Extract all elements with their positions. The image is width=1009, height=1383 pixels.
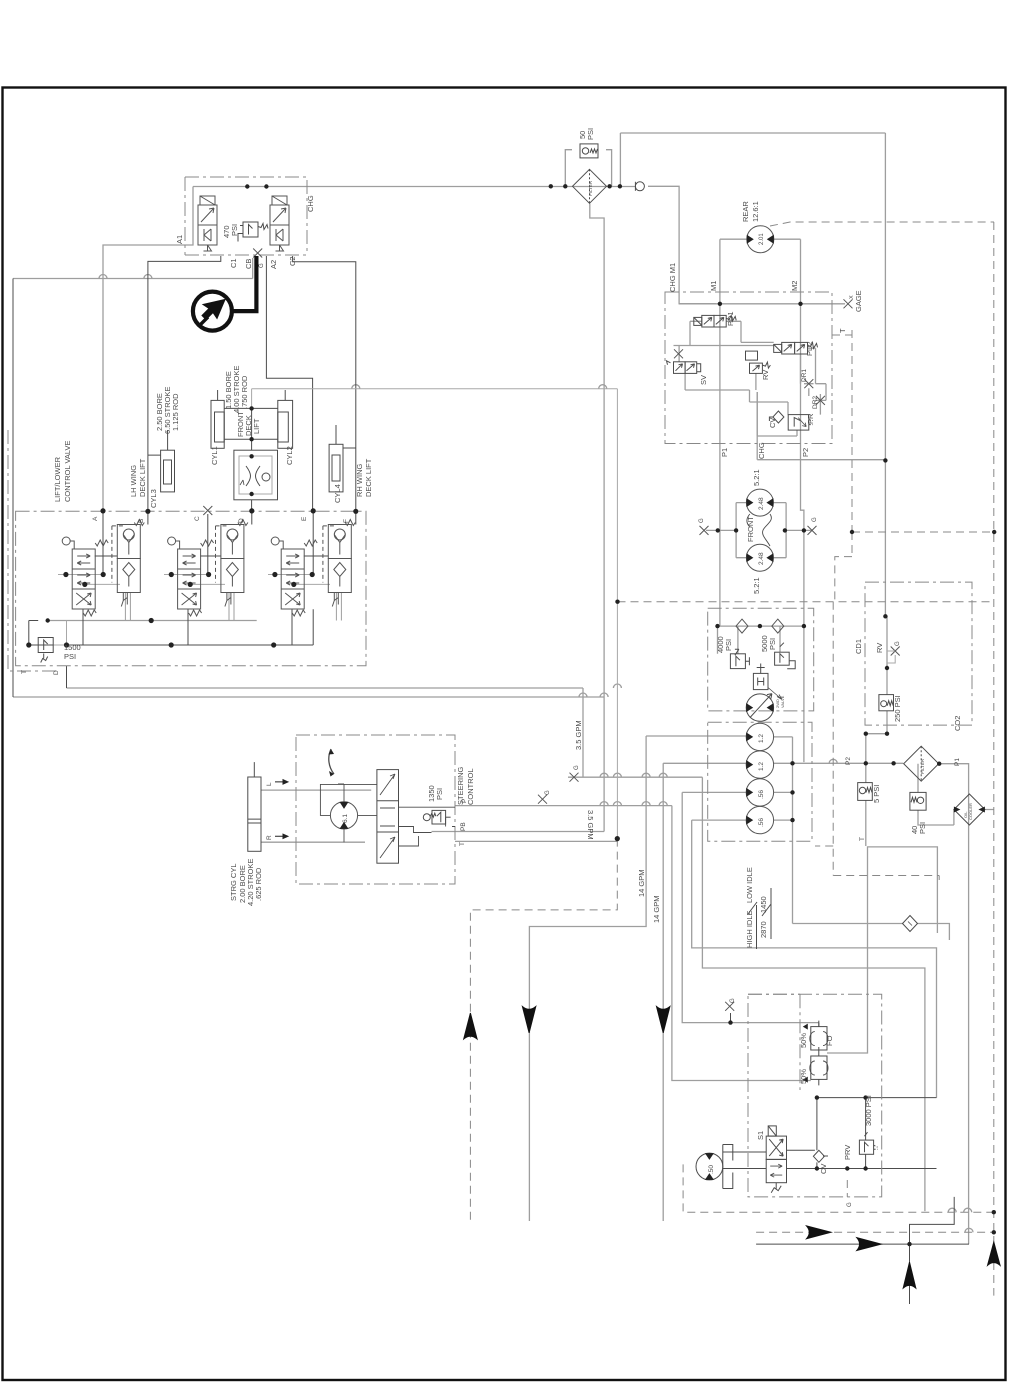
wire x691.7 pump pressure — [692, 820, 937, 1098]
wire bus x604 — [13, 204, 604, 832]
svg-text:M1: M1 — [709, 281, 718, 291]
steering gerotor — [330, 802, 357, 829]
junction dots wheel motors — [790, 761, 794, 765]
svg-text:PSI: PSI — [918, 822, 927, 834]
wire wheel rows right — [774, 737, 793, 924]
relief 4000 — [730, 649, 749, 668]
wire charge to CHG M1 — [648, 186, 716, 303]
arrow right dashed bus — [807, 1226, 832, 1239]
svg-text:M2: M2 — [790, 281, 799, 291]
svg-text:3000 PSI: 3000 PSI — [864, 1095, 873, 1126]
svg-text:REAR: REAR — [741, 201, 750, 222]
wire x617 drop — [616, 389, 618, 839]
svg-text:PSI: PSI — [64, 652, 76, 661]
wire pump to S1 — [723, 1152, 766, 1169]
motor FRONT lower — [746, 544, 773, 571]
steering valve body — [377, 770, 399, 864]
check idle diamond — [903, 916, 918, 932]
svg-text:PSI: PSI — [230, 224, 239, 236]
svg-text:CYL1: CYL1 — [210, 446, 219, 465]
svg-text:CHG M1: CHG M1 — [668, 263, 677, 292]
junction dots right drop — [883, 458, 887, 462]
svg-text:1500: 1500 — [64, 643, 81, 652]
wire pump top rail — [817, 1097, 937, 1099]
motor wheel .56a — [746, 779, 773, 806]
wire A2 to port E — [266, 256, 312, 511]
svg-text:L: L — [266, 782, 273, 786]
svg-text:C1: C1 — [229, 258, 238, 268]
filter bottom diamond — [904, 746, 939, 781]
arrow down x663 — [657, 1007, 670, 1033]
wire lift links gray2 — [53, 621, 66, 646]
svg-text:3.5 GPM: 3.5 GPM — [574, 720, 583, 750]
svg-text:P2: P2 — [801, 448, 810, 457]
lift check 3 — [323, 520, 355, 607]
arrow right solid bus — [857, 1238, 881, 1251]
svg-text:G: G — [574, 765, 580, 770]
shuttle 2wd — [753, 664, 782, 700]
wire 40psi branch — [918, 764, 954, 825]
svg-text:1450: 1450 — [759, 896, 768, 913]
arrow up tank dashed — [464, 1013, 477, 1039]
svg-text:D: D — [53, 670, 60, 675]
relief 470 PSI — [238, 222, 268, 242]
wire x702 — [702, 777, 925, 1211]
enclosure steering — [296, 735, 455, 884]
svg-text:PSI: PSI — [768, 638, 777, 650]
wire pump lower rail — [787, 1162, 937, 1168]
heavy wire from cursor — [232, 256, 256, 311]
motor REAR — [747, 226, 774, 253]
relief 5000 — [775, 643, 796, 669]
svg-text:A1: A1 — [175, 235, 184, 244]
svg-text:5 PSI: 5 PSI — [872, 785, 881, 803]
svg-text:.56: .56 — [758, 790, 765, 799]
svg-text:D: D — [238, 518, 245, 523]
cyl CYL2 — [278, 390, 293, 448]
junction dots M1 M2 — [718, 302, 722, 306]
check 50 PSI — [580, 144, 598, 158]
svg-text:1.2: 1.2 — [758, 762, 765, 771]
svg-text:DECK LIFT: DECK LIFT — [138, 458, 147, 497]
junction dots bottom bus — [907, 1242, 911, 1246]
cyl CYL4 — [329, 444, 343, 492]
wire 5psi branch — [865, 763, 867, 846]
testpoint G 3.5gpm — [570, 773, 579, 782]
svg-text:6.1: 6.1 — [342, 814, 349, 823]
svg-text:G: G — [699, 518, 705, 523]
wire charge to port A — [103, 187, 193, 511]
lift check 1 — [112, 520, 144, 607]
svg-text:PSI: PSI — [586, 128, 595, 140]
wire right drop from top rail — [884, 133, 886, 616]
enclosure wheel relief block — [708, 608, 814, 711]
valve PD1 — [694, 315, 736, 327]
svg-text:GAGE: GAGE — [854, 290, 863, 312]
testpoint G lift C — [203, 506, 212, 515]
svg-text:DR2: DR2 — [812, 396, 819, 409]
wire cooler link — [954, 810, 994, 826]
svg-text:VALVE: VALVE — [780, 695, 785, 708]
svg-text:COOLER: COOLER — [968, 803, 973, 820]
wire chg block internals — [674, 321, 827, 436]
wire dashed T drop — [832, 330, 852, 532]
svg-text:LIFT/LOWER: LIFT/LOWER — [53, 456, 62, 502]
wire gage rail — [679, 303, 845, 305]
svg-text:HIGH IDLE: HIGH IDLE — [745, 910, 754, 948]
wire hi-idle underline — [757, 888, 772, 949]
svg-text:.625 ROD: .625 ROD — [254, 867, 263, 901]
wire steering P ext — [455, 805, 672, 807]
svg-text:5.2:1: 5.2:1 — [752, 469, 761, 486]
valve A2 — [270, 196, 289, 251]
wire CHG top rail — [193, 186, 635, 188]
svg-text:G: G — [847, 1202, 853, 1207]
filter diamond — [573, 169, 607, 203]
relief 1500 — [38, 638, 53, 663]
enclosure cooler — [865, 582, 972, 725]
wire valve section drops — [83, 609, 292, 645]
motor wheel 2.48 variable — [746, 694, 773, 722]
wire FO out — [827, 847, 937, 1053]
check diamond relief block R — [772, 619, 784, 633]
enclosure CHG M1 — [665, 292, 832, 444]
lift section 2 — [168, 537, 214, 616]
wire P2 rail — [663, 762, 903, 764]
svg-text:.750 ROD: .750 ROD — [240, 375, 249, 409]
wire steering L R — [261, 790, 371, 842]
enclosure wheel motors — [708, 722, 812, 841]
wire D tank run — [67, 688, 584, 777]
testpoint G steer — [538, 795, 547, 804]
wire divider drop — [251, 408, 253, 439]
lift section 1 — [62, 537, 108, 616]
svg-text:RV: RV — [875, 643, 884, 653]
relief PRV — [859, 1132, 877, 1154]
svg-text:PD1: PD1 — [726, 311, 735, 326]
motor wheel 1.2a — [746, 723, 773, 750]
relief 1350 — [423, 810, 450, 824]
svg-text:STRG CYL: STRG CYL — [229, 863, 238, 901]
valve SV — [667, 349, 701, 373]
testpoint G front left — [700, 526, 709, 535]
testpoint G front right — [808, 526, 817, 535]
wire M1 drop — [719, 239, 721, 626]
motor wheel 1.2b — [746, 751, 773, 778]
junction dots front motors — [734, 528, 738, 532]
wire front deck rail — [252, 389, 618, 409]
svg-text:CONTROL VALVE: CONTROL VALVE — [63, 440, 72, 502]
enclosure FO — [748, 994, 800, 1090]
pump 50 — [696, 1145, 733, 1189]
arrow up x910 — [903, 1262, 916, 1288]
wire x663 — [662, 763, 664, 1221]
wire filter top feed — [620, 133, 885, 186]
svg-text:DECK LIFT: DECK LIFT — [364, 458, 373, 497]
wire CB drop — [252, 258, 254, 279]
cursor pointer circle — [193, 292, 232, 331]
junction dot FO feed — [728, 1020, 732, 1024]
svg-text:CV: CV — [768, 418, 777, 428]
svg-text:S1: S1 — [756, 1131, 765, 1140]
wire CYL3 tap — [148, 430, 168, 455]
svg-text:C: C — [194, 516, 201, 521]
svg-text:T: T — [21, 670, 28, 674]
wire CHG drop in block — [756, 392, 758, 460]
wire dashed y532 — [852, 531, 994, 533]
svg-text:R: R — [266, 835, 273, 840]
svg-text:CD1: CD1 — [854, 639, 863, 654]
wire P1 drop — [939, 764, 968, 1244]
junction dots relief block — [715, 624, 719, 628]
svg-text:50%: 50% — [799, 1069, 808, 1084]
svg-text:FO: FO — [825, 1035, 834, 1046]
svg-text:LH WING: LH WING — [129, 465, 138, 497]
wire C2 to port F — [293, 256, 356, 511]
svg-text:14 GPM: 14 GPM — [637, 869, 646, 897]
enclosure lift/lower — [16, 511, 366, 665]
wire dashed pump drain — [683, 1164, 994, 1212]
svg-text:G: G — [259, 263, 265, 268]
breather flag — [635, 182, 644, 191]
wire dashed y601 — [618, 601, 995, 603]
svg-text:CYL3: CYL3 — [149, 489, 158, 508]
lift section 3 — [271, 537, 317, 616]
wire lift block pressure rail — [29, 609, 313, 645]
wire filter bypass loop — [565, 150, 611, 187]
wire 14gpm x646 — [529, 736, 746, 1221]
wire dashed steer tank — [470, 839, 617, 1220]
check 40psi — [910, 792, 926, 810]
svg-text:FRONT: FRONT — [746, 516, 755, 542]
wire X G stub above FO — [730, 1013, 732, 1023]
gage point — [844, 299, 853, 308]
svg-text:E: E — [301, 516, 308, 521]
svg-text:G: G — [895, 641, 901, 646]
svg-text:T: T — [838, 328, 847, 333]
wire left long drop — [12, 279, 14, 698]
svg-text:A: A — [92, 516, 99, 521]
wire jump arcs — [99, 275, 973, 1233]
testpoint G 250 — [887, 647, 900, 664]
check diamond relief block L — [736, 619, 748, 633]
svg-text:LIFT: LIFT — [252, 418, 261, 434]
junction dots P2 rail — [864, 761, 868, 765]
svg-text:1.2: 1.2 — [758, 734, 765, 743]
svg-text:G: G — [730, 998, 736, 1003]
wire steering P PB — [399, 807, 456, 846]
valve PR — [788, 415, 813, 431]
wire y460 rail — [757, 459, 885, 461]
wire dashed bottom bus — [756, 1231, 994, 1233]
svg-text:T: T — [459, 842, 466, 846]
svg-text:G: G — [812, 517, 818, 522]
svg-text:PSI: PSI — [435, 788, 444, 800]
svg-text:A2: A2 — [269, 260, 278, 269]
arrow down x529 — [522, 1007, 535, 1033]
svg-text:RH WING: RH WING — [355, 464, 364, 497]
oil cooler diamond — [954, 794, 985, 825]
wire front motor loop — [736, 503, 786, 558]
junction dots charge rail — [245, 184, 249, 188]
wire gerotor loop — [320, 784, 377, 842]
check CV chgblock — [769, 411, 784, 423]
svg-text:CV: CV — [819, 1164, 828, 1174]
relief 250 — [879, 695, 894, 711]
svg-text:CO2: CO2 — [953, 716, 962, 731]
wire lift block gray rail — [48, 620, 257, 622]
enclosure charge valves — [185, 177, 307, 255]
wire check stack drops — [125, 592, 341, 620]
svg-text:14 GPM: 14 GPM — [652, 895, 661, 923]
svg-text:CHG: CHG — [757, 442, 766, 459]
flow divider — [234, 450, 278, 500]
orifice DR2 — [816, 396, 825, 405]
valve RV — [746, 351, 771, 373]
motor wheel .56b — [746, 806, 773, 833]
lift check 2 — [216, 520, 248, 607]
wire x682 to FO top — [682, 792, 819, 1026]
wire M2 drop — [801, 239, 804, 762]
arrow R small — [275, 834, 288, 838]
check 5psi — [858, 783, 873, 801]
wire relief block top — [718, 625, 804, 627]
wire dashed G stub pump — [846, 1180, 848, 1197]
svg-text:PR: PR — [806, 413, 815, 424]
wire dashed case drain top — [770, 222, 994, 1296]
svg-text:T: T — [859, 837, 866, 841]
arrow L small — [275, 780, 288, 784]
wire 2870 slash — [748, 902, 771, 916]
svg-text:B: B — [138, 519, 145, 523]
svg-text:RV: RV — [761, 370, 770, 380]
svg-text:LOW IDLE: LOW IDLE — [745, 867, 754, 903]
svg-text:CYL2: CYL2 — [285, 446, 294, 465]
svg-text:SV: SV — [699, 375, 708, 385]
svg-text:50%: 50% — [799, 1033, 808, 1048]
svg-text:.50: .50 — [708, 1165, 715, 1174]
cyl CYL3 — [161, 450, 175, 492]
wire section cross links — [95, 555, 329, 557]
wire pump S1 CV — [787, 1098, 866, 1169]
svg-text:3.5 GPM: 3.5 GPM — [586, 810, 595, 840]
wire x671.9 to FO — [672, 806, 811, 1081]
wire check to sections — [103, 511, 356, 575]
junction dots lift rails — [64, 642, 69, 647]
svg-text:5.2:1: 5.2:1 — [752, 577, 761, 594]
wire C1 to port B — [148, 256, 221, 511]
cursor arrow — [202, 300, 225, 320]
valve S1 — [766, 1126, 786, 1193]
wire dashed x833 — [815, 532, 939, 880]
wire CYL4 tap — [336, 425, 356, 448]
svg-text:G: G — [545, 790, 551, 795]
svg-text:FILTER: FILTER — [920, 758, 925, 774]
valve FO 50pct — [803, 1021, 828, 1086]
orifice DR1 — [804, 379, 813, 388]
svg-text:P: P — [461, 799, 468, 803]
svg-text:250 PSI: 250 PSI — [893, 695, 902, 722]
svg-text:2.01: 2.01 — [759, 233, 765, 245]
enclosure pump — [748, 994, 882, 1197]
wire high idle rail — [793, 924, 950, 941]
wire D port exit — [66, 666, 68, 688]
wire 4000 branch — [718, 626, 781, 654]
steering cylinder — [248, 762, 261, 851]
svg-text:P1: P1 — [720, 448, 729, 457]
svg-text:2.48: 2.48 — [758, 497, 765, 510]
svg-text:1.125 ROD: 1.125 ROD — [171, 393, 180, 431]
enclosure lift/lower outer — [8, 430, 60, 671]
arrow up x994 — [988, 1242, 1001, 1265]
svg-text:CYL4: CYL4 — [333, 484, 342, 503]
valve A1 — [198, 196, 217, 251]
svg-text:CHG: CHG — [306, 195, 315, 212]
cyl CYL1 — [211, 390, 224, 448]
svg-text:PB: PB — [460, 822, 467, 831]
svg-text:.56: .56 — [758, 818, 765, 827]
wire front motor crossover — [747, 514, 771, 546]
svg-text:CB: CB — [244, 259, 253, 269]
svg-text:FILTER: FILTER — [588, 180, 593, 196]
junction dots lift ports — [100, 508, 105, 513]
svg-text:2870: 2870 — [759, 921, 768, 938]
svg-text:PRV: PRV — [843, 1145, 852, 1160]
svg-text:PSI: PSI — [724, 639, 733, 651]
wire tank rail left — [13, 278, 253, 280]
check CV pump — [813, 1150, 824, 1162]
svg-text:C2: C2 — [288, 256, 297, 266]
wire front motor G taps — [706, 529, 812, 531]
testpoint G FO — [725, 1002, 734, 1011]
wire 250psi branch — [866, 616, 887, 763]
motor FRONT upper — [746, 489, 773, 516]
wire 1500psi left stub — [29, 621, 38, 646]
junction dots pump rails — [815, 1095, 819, 1099]
wire rear motor stubs — [720, 238, 801, 240]
svg-text:PD2: PD2 — [805, 341, 814, 356]
wire bottom solid bus — [756, 1197, 969, 1244]
svg-text:P2: P2 — [845, 757, 852, 765]
svg-text:F: F — [343, 519, 350, 523]
svg-text:2.48: 2.48 — [758, 552, 765, 565]
valve PD2 — [774, 342, 818, 354]
svg-text:DR1: DR1 — [801, 369, 808, 382]
testpoint G cursor — [253, 249, 262, 258]
wire front cyl bridge — [224, 408, 278, 511]
junction dot steering T — [615, 836, 620, 841]
svg-text:P1: P1 — [954, 758, 961, 766]
steering wheel arc — [329, 749, 334, 774]
wire bottom stub up arrow — [909, 1244, 911, 1304]
wire bus x583 3.5gpm — [568, 776, 702, 778]
svg-text:12.6:1: 12.6:1 — [751, 201, 760, 222]
wire steering T out — [455, 840, 617, 842]
